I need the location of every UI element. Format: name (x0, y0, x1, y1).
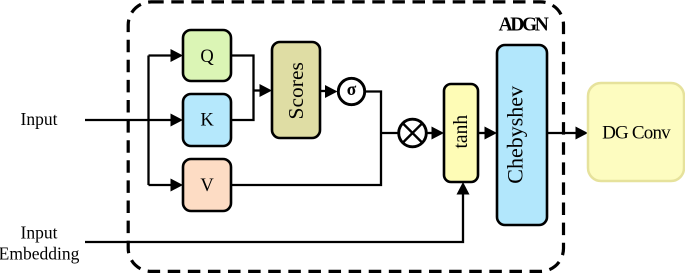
svg-text:σ: σ (347, 79, 357, 99)
arrowhead into sigma (325, 85, 338, 98)
box K (183, 94, 231, 146)
svg-text:ADGN: ADGN (499, 15, 549, 36)
wire Chebyshev to DG Conv (547, 132, 577, 134)
arrowhead into Q (171, 49, 184, 62)
dashed container ADGN (128, 2, 563, 272)
svg-text:Input: Input (21, 223, 58, 243)
svg-text:tanh: tanh (451, 115, 472, 149)
svg-text:Input: Input (21, 109, 58, 129)
arrowhead into V (171, 179, 184, 192)
box Chebyshev (497, 45, 547, 225)
arrowhead into K (171, 114, 184, 127)
svg-text:V: V (200, 176, 214, 196)
wire tanh to Chebyshev (478, 132, 486, 134)
node sigma (338, 78, 364, 104)
wire branch to Q (149, 54, 172, 56)
box DG Conv (588, 83, 684, 181)
svg-text:Embedding: Embedding (0, 244, 80, 264)
arrowhead into DG Conv (576, 127, 589, 140)
svg-text:Chebyshev: Chebyshev (503, 86, 528, 184)
wire V out (231, 133, 381, 185)
arrowhead into tanh (432, 127, 445, 140)
svg-text:DG Conv: DG Conv (602, 122, 671, 143)
box Scores (272, 42, 320, 138)
wire Q out (231, 56, 254, 91)
svg-text:Scores: Scores (284, 62, 308, 119)
wire K out (231, 91, 254, 121)
wire branch vertical (147, 56, 149, 186)
wire branch to V (149, 184, 172, 186)
wire Scores to sigma (320, 90, 326, 92)
svg-text:K: K (200, 111, 214, 131)
wire sigma out down (366, 92, 382, 134)
wire into otimes (381, 132, 400, 134)
wire input embedding to tanh (85, 193, 463, 242)
wire input main (85, 119, 171, 121)
box Q (183, 30, 231, 81)
box V (183, 159, 231, 211)
node otimes (399, 119, 427, 147)
wire merge to Scores (254, 89, 262, 91)
arrowhead into Scores (260, 84, 273, 97)
svg-text:Q: Q (200, 47, 214, 67)
arrowhead up into tanh (457, 182, 470, 195)
box tanh (444, 84, 478, 182)
wire otimes to tanh (427, 132, 433, 134)
arrowhead into Chebyshev (485, 127, 498, 140)
